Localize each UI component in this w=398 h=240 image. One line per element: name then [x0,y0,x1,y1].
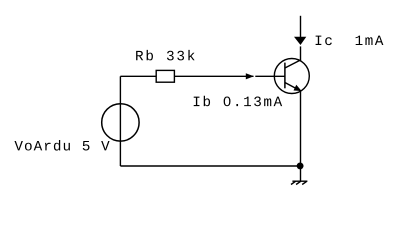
wire emitter vertical [300,91,302,166]
label VoArdu 5 V [14,140,109,151]
base current arrow Ib [246,73,254,79]
wire top horizontal right segment (resistor to base) [175,75,254,77]
transistor Q1 collector diagonal [285,60,301,68]
collector current arrow Ic [294,37,306,45]
transistor Q1 base bar [284,63,286,89]
wire bottom horizontal [120,165,300,167]
transistor Q1 emitter diagonal [285,83,301,92]
wire top horizontal left segment (source to resistor) [120,75,156,77]
transistor Q1 body [274,59,309,94]
resistor Rb [156,70,174,82]
label Ib 0.13mA [194,96,282,107]
junction node [297,162,304,169]
transistor Q1 emitter arrow [294,85,302,91]
label Rb 33k [136,50,194,61]
ground [291,166,307,185]
wire left vertical [119,76,121,166]
voltage source V1 [102,104,139,141]
label Ic 1mA [316,36,384,46]
wire collector vertical [300,16,302,38]
